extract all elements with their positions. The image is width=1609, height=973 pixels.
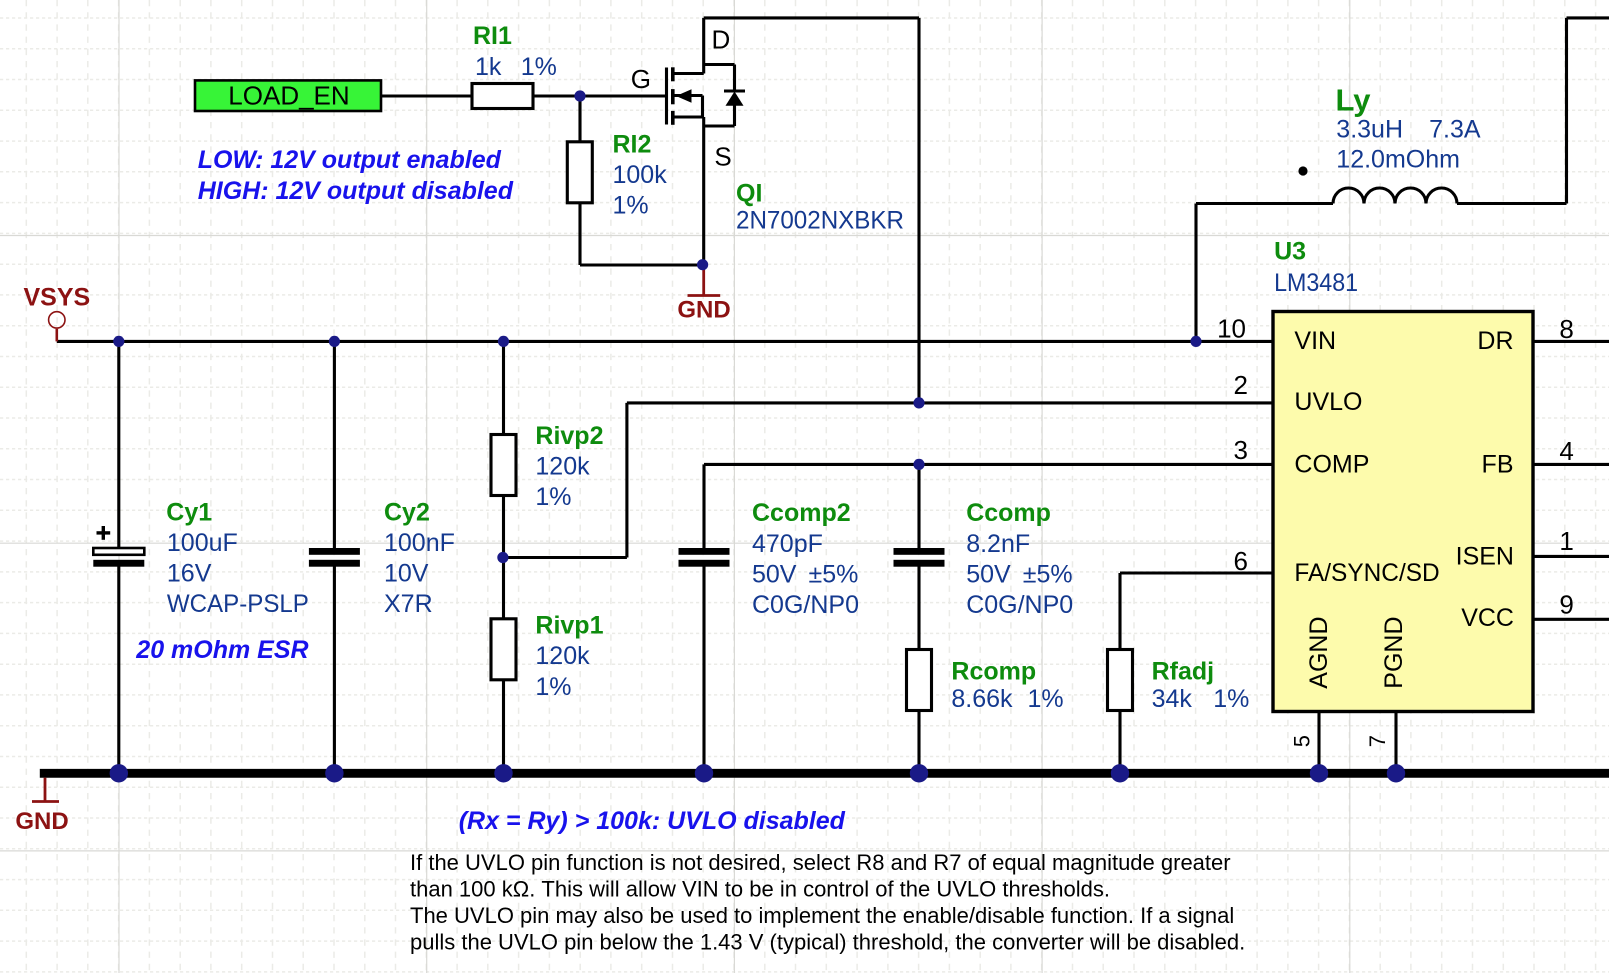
svg-text:COMP: COMP — [1294, 451, 1369, 479]
svg-text:120k: 120k — [535, 453, 590, 481]
svg-text:If the UVLO pin function is no: If the UVLO pin function is not desired,… — [410, 850, 1231, 875]
svg-text:S: S — [714, 142, 731, 172]
svg-text:ISEN: ISEN — [1456, 543, 1514, 571]
svg-text:D: D — [712, 25, 731, 55]
svg-text:VCC: VCC — [1461, 604, 1514, 632]
svg-text:100uF: 100uF — [167, 529, 238, 557]
svg-text:470pF: 470pF — [752, 530, 823, 558]
svg-text:FA/SYNC/SD: FA/SYNC/SD — [1294, 559, 1439, 587]
svg-text:100k: 100k — [613, 161, 668, 189]
svg-text:LOAD_EN: LOAD_EN — [228, 80, 349, 110]
svg-text:RI1: RI1 — [473, 22, 512, 50]
svg-text:UVLO: UVLO — [1294, 388, 1362, 416]
svg-text:8.66k: 8.66k — [951, 685, 1013, 713]
svg-text:16V: 16V — [167, 560, 212, 588]
svg-text:8.2nF: 8.2nF — [966, 530, 1030, 558]
svg-text:4: 4 — [1559, 436, 1573, 466]
svg-text:±5%: ±5% — [1023, 561, 1073, 589]
svg-text:VSYS: VSYS — [24, 284, 91, 312]
svg-text:50V: 50V — [966, 561, 1011, 589]
svg-text:100nF: 100nF — [384, 529, 455, 557]
svg-text:1k: 1k — [475, 53, 502, 81]
svg-text:120k: 120k — [535, 642, 590, 670]
svg-text:1%: 1% — [613, 192, 649, 220]
svg-text:Rivp2: Rivp2 — [535, 422, 603, 450]
svg-text:7: 7 — [1365, 735, 1390, 747]
svg-text:Ly: Ly — [1336, 82, 1372, 117]
svg-text:LM3481: LM3481 — [1274, 269, 1358, 297]
svg-text:6: 6 — [1234, 546, 1248, 576]
svg-text:pulls the UVLO pin below the 1: pulls the UVLO pin below the 1.43 V (typ… — [410, 930, 1245, 955]
svg-text:GND: GND — [15, 808, 68, 835]
svg-text:PGND: PGND — [1380, 616, 1408, 688]
svg-text:(Rx = Ry) > 100k: UVLO disable: (Rx = Ry) > 100k: UVLO disabled — [459, 807, 846, 835]
svg-text:X7R: X7R — [384, 590, 433, 618]
svg-text:±5%: ±5% — [809, 561, 859, 589]
svg-text:WCAP-PSLP: WCAP-PSLP — [167, 590, 309, 618]
svg-text:DR: DR — [1477, 327, 1513, 355]
svg-text:9: 9 — [1559, 590, 1573, 620]
svg-text:10: 10 — [1217, 314, 1246, 344]
svg-text:3.3uH: 3.3uH — [1336, 116, 1403, 144]
svg-text:8: 8 — [1559, 314, 1573, 344]
svg-text:1%: 1% — [535, 483, 571, 511]
svg-text:C0G/NP0: C0G/NP0 — [752, 591, 859, 619]
svg-text:1%: 1% — [521, 53, 557, 81]
svg-text:50V: 50V — [752, 561, 797, 589]
svg-text:HIGH: 12V output disabled: HIGH: 12V output disabled — [198, 177, 514, 205]
svg-text:The UVLO pin may also be used: The UVLO pin may also be used to impleme… — [410, 903, 1234, 928]
svg-text:Rcomp: Rcomp — [951, 658, 1036, 686]
svg-text:1%: 1% — [1028, 685, 1064, 713]
svg-text:1: 1 — [1559, 526, 1573, 556]
svg-text:3: 3 — [1234, 435, 1248, 465]
svg-text:5: 5 — [1290, 735, 1315, 747]
svg-text:12.0mOhm: 12.0mOhm — [1336, 146, 1460, 174]
svg-text:C0G/NP0: C0G/NP0 — [966, 591, 1073, 619]
svg-text:QI: QI — [736, 179, 762, 207]
svg-text:1%: 1% — [1213, 685, 1249, 713]
svg-text:FB: FB — [1482, 451, 1514, 479]
svg-text:2: 2 — [1234, 370, 1248, 400]
svg-text:34k: 34k — [1152, 685, 1193, 713]
svg-text:AGND: AGND — [1305, 616, 1333, 688]
svg-text:U3: U3 — [1274, 238, 1306, 266]
svg-text:Cy2: Cy2 — [384, 499, 430, 527]
svg-text:10V: 10V — [384, 560, 429, 588]
svg-text:20 mOhm ESR: 20 mOhm ESR — [135, 636, 308, 664]
svg-text:2N7002NXBKR: 2N7002NXBKR — [736, 206, 904, 234]
svg-text:Cy1: Cy1 — [166, 499, 212, 527]
svg-text:RI2: RI2 — [613, 130, 652, 158]
svg-text:than 100 kΩ. This will allow V: than 100 kΩ. This will allow VIN to be i… — [410, 877, 1110, 902]
svg-text:VIN: VIN — [1294, 327, 1336, 355]
svg-text:Ccomp2: Ccomp2 — [752, 499, 851, 527]
svg-text:Rfadj: Rfadj — [1152, 658, 1215, 686]
svg-text:G: G — [631, 64, 651, 94]
svg-text:Ccomp: Ccomp — [966, 499, 1051, 527]
svg-text:Rivp1: Rivp1 — [535, 612, 603, 640]
svg-text:7.3A: 7.3A — [1429, 116, 1481, 144]
svg-text:1%: 1% — [535, 673, 571, 701]
svg-text:GND: GND — [677, 296, 730, 323]
svg-text:LOW: 12V output enabled: LOW: 12V output enabled — [198, 146, 502, 174]
